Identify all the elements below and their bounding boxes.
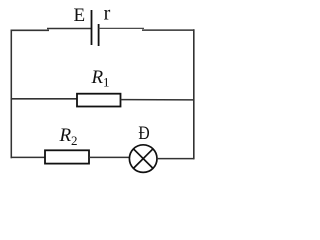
battery E,r: long plate [91, 10, 93, 45]
wire: top segment to battery [47, 28, 92, 30]
wire: battery to right jog [99, 27, 144, 29]
wire: middle branch right [121, 99, 195, 101]
battery E,r: short plate [98, 24, 100, 46]
svg-text:E: E [74, 5, 86, 26]
wire: R2 to lamp [89, 156, 130, 158]
wire: top left segment [11, 29, 50, 31]
lamp Đ: circle [129, 145, 157, 173]
svg-text:R: R [91, 67, 104, 88]
wire: top right segment [142, 29, 194, 31]
wire: lamp to right [157, 158, 194, 160]
svg-text:r: r [104, 3, 111, 25]
resistor R2 [45, 150, 89, 163]
wire: left vertical [10, 30, 12, 159]
resistor R1 [77, 94, 121, 107]
svg-text:2: 2 [71, 133, 78, 148]
wire: middle branch left [11, 98, 78, 100]
lamp Đ: cross stroke 1 [133, 149, 153, 169]
svg-text:1: 1 [103, 75, 110, 90]
svg-text:R: R [59, 125, 72, 146]
svg-text:Đ: Đ [138, 123, 149, 144]
wire: right vertical [193, 29, 195, 159]
lamp Đ: cross stroke 2 [133, 149, 153, 169]
wire: bottom left segment [11, 156, 46, 158]
